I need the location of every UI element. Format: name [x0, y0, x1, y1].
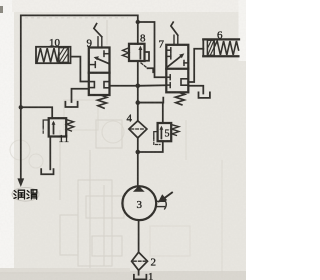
润	[14, 191, 16, 199]
spring cylinder 10	[36, 47, 71, 63]
滑	[27, 191, 29, 199]
wire: manifold to valve 7 lower left port	[138, 84, 167, 87]
filter 2	[132, 252, 148, 270]
wire: manifold to valve 9 right port	[110, 85, 138, 87]
wire: left supply line (top run + left drop to lubrication)	[21, 15, 138, 178]
lubrication arrow	[17, 178, 24, 187]
top square: blocked port marks	[89, 64, 96, 66]
spring cylinder 6	[203, 39, 239, 56]
lever	[97, 37, 99, 48]
wire: cylinder 10 to valve 9	[71, 57, 89, 82]
directional valve 7	[166, 22, 188, 105]
lubrication text 润滑 (drawn glyphs)	[12, 188, 39, 202]
wire: drain loop from junction toward valve 7 spring	[138, 98, 164, 103]
return spring below	[175, 93, 184, 105]
top square: blocked port mark right	[184, 62, 188, 64]
tank under valve 9	[65, 102, 77, 107]
node: top junction	[136, 20, 140, 24]
node: junction on left line	[19, 105, 23, 109]
wire: feeder from top junction down left of valve 7	[138, 22, 167, 77]
wire: main vertical pressure line	[137, 22, 139, 44]
bottom square: port squares	[89, 82, 95, 88]
node: manifold junction	[136, 84, 141, 89]
wire: valve 7 right port to cylinder 6	[188, 49, 203, 82]
top square: blocked port marks left	[166, 49, 171, 51]
pressure valve 11	[21, 107, 74, 174]
pump 3	[122, 186, 172, 220]
tank 1	[134, 275, 147, 280]
directional valve 9	[89, 24, 110, 109]
tank right of valve 7	[199, 92, 210, 98]
top square: flow arrow	[96, 58, 109, 63]
node: bypass lower junction	[136, 150, 141, 155]
bottom square: right port square	[181, 79, 188, 85]
wire: valve 7 drain to tank	[188, 86, 203, 94]
return spring below	[98, 96, 107, 109]
bottom square: blocked port marks left	[166, 76, 170, 78]
node: bypass upper junction	[136, 100, 141, 105]
filter 4	[129, 121, 147, 138]
lever	[173, 35, 175, 45]
wire: valve 9 port to tank	[72, 89, 89, 102]
relief valve 8	[122, 44, 153, 73]
top square: flow arrow	[167, 56, 181, 67]
bypass valve 5	[138, 103, 179, 152]
